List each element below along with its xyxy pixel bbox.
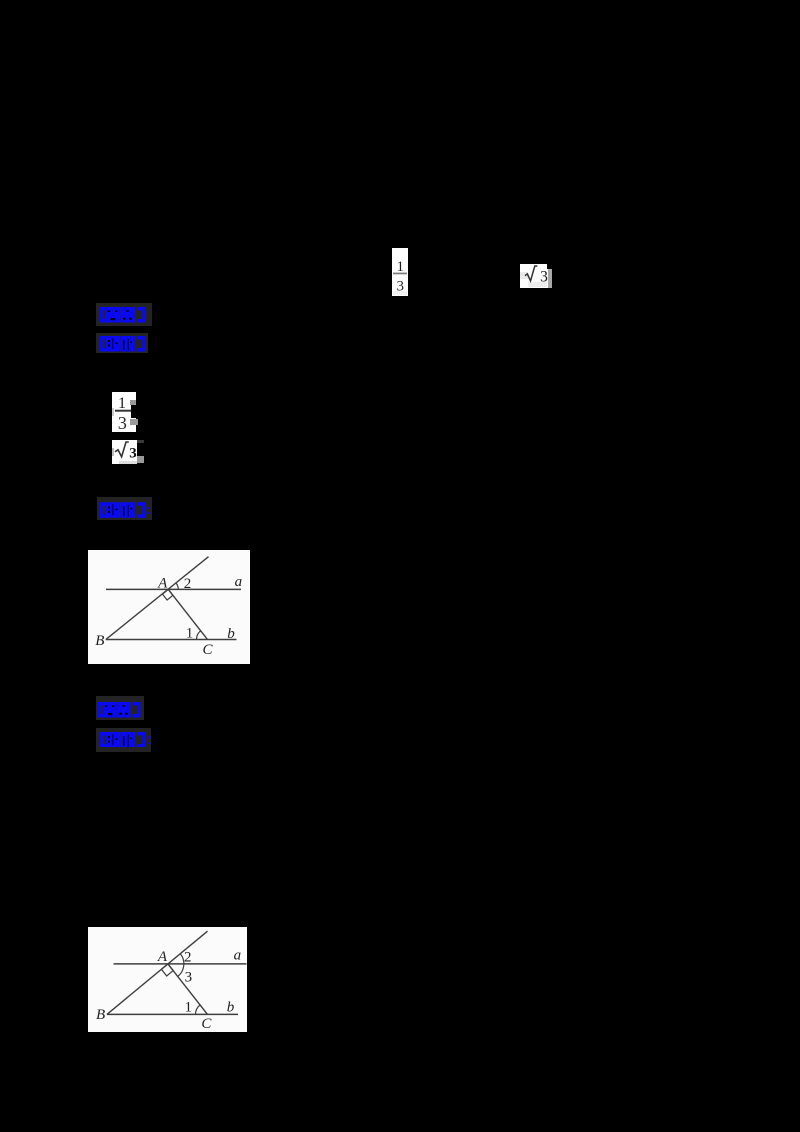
svg-text:3: 3 [129,446,137,462]
svg-text:B: B [96,1007,105,1023]
blue colon after label 5 [149,736,151,739]
blue colon after label 3 [148,507,150,510]
svg-text:1: 1 [396,259,404,275]
angle 1 arc [196,631,200,640]
segment A-C [168,964,208,1015]
blue label 1: answer tag [96,303,152,326]
svg-text:A: A [157,575,168,591]
transversal through B and A [106,557,209,640]
svg-text:1: 1 [118,395,126,412]
svg-text:1: 1 [185,999,193,1015]
transversal through B and A [107,931,208,1014]
blue label 4: answer tag [96,696,144,720]
angle 2-3 arc [178,954,184,977]
blue label 3: analysis tag [97,497,152,520]
svg-text:C: C [202,642,213,658]
svg-text:3: 3 [396,279,404,295]
segment A-C [168,589,207,639]
formula image: fraction 1/3 (answer line) [112,392,136,432]
svg-text:2: 2 [184,950,192,966]
geometry figure 1: parallel lines a,b with triangle ABC, right angle at A, angles 1,2 [88,550,250,664]
svg-text:b: b [227,999,235,1015]
blue label 2: analysis tag [96,333,148,353]
formula image: fraction 1/3 (top, inline in question text) [392,248,408,296]
line b [106,639,237,641]
formula image: sqrt(3) (top, inline in question text) [520,264,552,288]
geometry figure 2: parallel lines a,b, triangle ABC, right angle at A, angles 1,2,3 [88,927,247,1032]
svg-text:3: 3 [185,969,193,985]
svg-text:1: 1 [186,626,194,642]
svg-text:a: a [235,574,243,590]
svg-text:b: b [227,626,235,642]
right angle mark at A [162,589,172,600]
svg-text:3: 3 [118,413,127,432]
svg-text:3: 3 [540,269,548,286]
formula image: sqrt(3) (answer line) [112,440,137,464]
hidden defs for blue glyph groups [0,0,1,1]
angle 1 arc [195,1005,200,1014]
svg-text:a: a [234,948,242,964]
angle 2 arc [176,583,178,589]
right angle mark at A [161,964,173,976]
line a [114,963,247,965]
line b [107,1013,238,1015]
svg-text:C: C [201,1016,212,1032]
blue label 5: analysis tag [96,728,151,752]
svg-text:2: 2 [184,576,192,592]
line a [106,588,241,590]
svg-text:B: B [95,633,104,649]
svg-text:A: A [157,949,168,965]
